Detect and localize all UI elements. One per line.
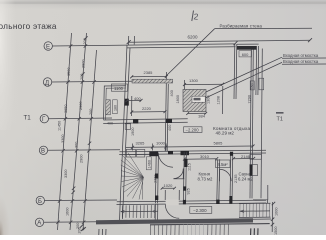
svg-text:3010: 3010 [200, 154, 210, 159]
leader 2 to hatched block [199, 62, 282, 101]
dark treads bottom right corner [251, 228, 258, 235]
svg-text:180: 180 [113, 105, 117, 111]
black pier on Г wall left [133, 119, 138, 123]
axis line Б [45, 199, 118, 202]
room label: Комната отдыха 48.29 м2 [213, 126, 250, 136]
closet door arc [220, 169, 232, 181]
elevation mark -2.300 [190, 207, 212, 214]
interior wall: big room left side, double vertical [165, 84, 166, 152]
axis Г wall double [104, 119, 188, 120]
black pier top closet wall [230, 152, 233, 156]
small box on shaft [250, 81, 254, 90]
svg-text:3500: 3500 [67, 68, 71, 76]
window box right wall lower with dark jamb [250, 165, 258, 176]
black pier on kitchen wall [184, 159, 187, 167]
svg-text:1000: 1000 [275, 208, 279, 216]
svg-text:200: 200 [89, 109, 93, 115]
svg-text:1900: 1900 [131, 128, 135, 136]
dim box 180 in bay [113, 100, 118, 114]
svg-text:3300: 3300 [61, 135, 65, 143]
entry threshold black bar [237, 46, 256, 50]
svg-text:−2.200: −2.200 [186, 128, 200, 133]
svg-text:4.5м²: 4.5м² [218, 162, 229, 167]
black pier on В wall near door [168, 151, 173, 154]
black pier bottom of stair wall [155, 174, 158, 179]
right stair dim 1000 rotated [271, 202, 273, 232]
apron line right of wall [261, 49, 262, 199]
left dimension chain C [83, 50, 97, 230]
section mark T1 right [276, 112, 284, 122]
hatched block: dismantled wall at stair [183, 90, 206, 112]
svg-text:Д: Д [45, 80, 49, 86]
svg-text:1800: 1800 [176, 95, 180, 103]
black pier on Г wall right [166, 119, 172, 123]
wall kitchen/closet double [216, 159, 219, 203]
straight stair treads bottom [122, 205, 155, 218]
vestibule wall vertical pair [233, 44, 236, 99]
axis circle А [35, 218, 43, 226]
svg-text:1115: 1115 [188, 163, 192, 171]
entrance door arc bottom [165, 204, 179, 218]
leader from Разбираемая стена to hatched wall band [166, 29, 215, 77]
svg-text:2900: 2900 [79, 102, 83, 110]
axis circle Е [44, 42, 52, 50]
svg-text:1100: 1100 [114, 86, 124, 91]
axis line Д [52, 80, 132, 83]
black piers on Б wall [183, 200, 186, 204]
svg-text:А: А [37, 221, 41, 227]
svg-text:400: 400 [168, 125, 172, 131]
svg-text:3650: 3650 [64, 105, 68, 113]
svg-text:3300: 3300 [64, 170, 68, 178]
left bay wall [104, 86, 126, 120]
svg-text:Т1: Т1 [277, 117, 283, 123]
black pier on В wall at kitchen wall [181, 151, 190, 155]
small box below Г on left wall [125, 124, 131, 130]
vent shaft hatched strip in bay [106, 100, 111, 115]
outside stair treads below А wall [150, 224, 228, 235]
svg-text:1300: 1300 [206, 96, 210, 104]
axis circle Г [40, 115, 48, 123]
stair right wall double [154, 155, 157, 204]
svg-text:925: 925 [187, 188, 191, 194]
ticks near А axis left [80, 224, 84, 231]
svg-text:11450: 11450 [58, 121, 62, 131]
axis circle Б [36, 196, 44, 204]
leader 1 to hatched block [196, 57, 282, 96]
svg-text:Входная отмостка: Входная отмостка [283, 53, 319, 58]
svg-text:600: 600 [242, 52, 249, 57]
bottom right corner of apron [253, 185, 268, 200]
svg-text:2385: 2385 [144, 70, 154, 75]
door arc from hall (top) [158, 153, 173, 168]
svg-text:1000: 1000 [156, 140, 166, 145]
axis circle Д [43, 78, 51, 86]
axis line Е [52, 44, 127, 47]
svg-text:1300: 1300 [189, 78, 199, 83]
svg-text:Б: Б [38, 199, 42, 205]
svg-text:1500: 1500 [274, 227, 278, 235]
right outside stair treads [240, 203, 270, 217]
svg-text:В: В [41, 149, 45, 155]
axis circle В [39, 146, 47, 154]
svg-text:−2.300: −2.300 [193, 208, 207, 213]
window box right wall upper [250, 154, 261, 159]
svg-text:300: 300 [75, 142, 79, 148]
svg-text:1020: 1020 [164, 183, 174, 188]
room label: Сауна 6.24 м2 [238, 172, 254, 182]
svg-text:6200: 6200 [188, 35, 199, 40]
svg-text:200: 200 [83, 38, 87, 44]
dim box 1460 (rotated) in stair [146, 157, 151, 170]
small marks bottom left of stairs [99, 229, 106, 235]
dim 600 box below bar [239, 51, 252, 57]
door opening in Б wall (gap masked) [166, 199, 179, 205]
svg-text:1600: 1600 [66, 208, 70, 216]
axis line А [44, 221, 100, 224]
stair walk line with arrow [121, 210, 158, 212]
entry shaft at top (vertical lines) [255, 46, 258, 95]
stair wall below Б [154, 204, 156, 219]
axis А thick dark wall [96, 218, 253, 224]
black pier bottom closet wall [229, 196, 232, 200]
svg-text:48.29 м2: 48.29 м2 [216, 131, 235, 136]
room label: Кухня 8.73 м2 [198, 172, 214, 182]
svg-text:Е: Е [46, 44, 50, 50]
handwritten sheet number №2 [192, 11, 194, 22]
svg-text:ольного этажа: ольного этажа [0, 22, 57, 31]
left dimension chain A [58, 33, 72, 230]
kitchen left wall double with piers [182, 152, 185, 203]
svg-text:1460: 1460 [148, 160, 152, 168]
top wall stub right of bar [237, 43, 259, 45]
black pier on left wall above Г [125, 99, 129, 106]
winder stair fan [121, 153, 153, 200]
chain ticks [56, 36, 96, 230]
building right wall double [252, 47, 253, 199]
line under А wall [150, 224, 270, 225]
rotated dimension numbers along left chains [58, 38, 94, 229]
door arc corridor-kitchen [174, 169, 184, 179]
wall closet/sauna double [229, 152, 232, 203]
svg-text:Разбираемая стена: Разбираемая стена [220, 24, 263, 29]
window boxes on В wall left [126, 149, 135, 157]
svg-text:2900: 2900 [82, 60, 86, 68]
svg-text:5805: 5805 [214, 141, 224, 146]
svg-text:3265: 3265 [136, 140, 146, 145]
svg-text:1208: 1208 [217, 96, 221, 104]
svg-text:8.73 м2: 8.73 м2 [198, 177, 214, 182]
svg-text:2900: 2900 [80, 155, 84, 163]
axis Б wall double [117, 200, 266, 202]
elevation mark -2.200 [184, 127, 202, 133]
svg-text:2135: 2135 [234, 175, 238, 183]
black pier lower on kitchen wall [183, 186, 186, 190]
svg-text:7290: 7290 [248, 95, 252, 103]
axis line Г [49, 117, 113, 120]
axis line В [48, 149, 120, 152]
dimension 1100 in bay [111, 84, 127, 91]
svg-text:Входная отмостка: Входная отмостка [283, 59, 319, 64]
svg-text:200: 200 [78, 227, 82, 233]
black pier top of stair wall [149, 152, 158, 157]
svg-text:6.24 м2: 6.24 м2 [238, 177, 254, 182]
building outer wall: top (axis Е), double line [127, 44, 236, 45]
svg-text:2220: 2220 [142, 106, 152, 111]
svg-text:200: 200 [80, 74, 84, 80]
left dimension chain B [70, 33, 87, 230]
hatched band: wall to dismantle on axis Д [132, 79, 173, 83]
axis В wall double [120, 150, 267, 152]
building outer wall: left, double line with bay [120, 45, 128, 221]
small wc box 4.5м2 [216, 160, 231, 168]
svg-text:400: 400 [170, 90, 174, 96]
svg-text:Т1: Т1 [24, 115, 32, 122]
